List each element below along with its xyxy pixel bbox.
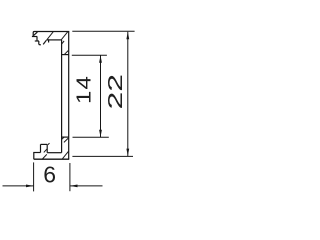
dim 6 right tail	[70, 185, 102, 187]
foot inner top edge	[47, 152, 61, 154]
beak lower vertical	[38, 41, 40, 45]
dim 6 left tail	[3, 185, 34, 187]
hatch web D	[64, 51, 68, 55]
riser left vertical	[40, 144, 42, 152]
hatch web F	[64, 138, 68, 142]
dim 6 left extension line	[33, 162, 35, 191]
arrow 22 bottom	[126, 149, 129, 156]
hatch flange A	[47, 32, 53, 40]
beak underside	[39, 44, 41, 46]
foot bottom edge	[34, 158, 69, 160]
hatch tick J	[48, 143, 50, 145]
dim 22 top extension line	[72, 30, 134, 32]
arrow 14 top	[99, 55, 102, 62]
hatch riser I	[44, 149, 47, 153]
svg-text:14: 14	[72, 75, 95, 104]
web internal line upper	[62, 54, 69, 56]
hatch web C	[62, 41, 64, 44]
arrow 14 bottom	[99, 130, 102, 137]
riser top edge	[41, 143, 48, 145]
svg-text:22: 22	[104, 74, 126, 110]
beak step bar 2	[35, 40, 39, 42]
arrow 22 top	[126, 32, 129, 39]
dim 6 right extension line	[69, 163, 71, 191]
dim 14 line	[100, 56, 102, 138]
beak pocket right vertical	[48, 39, 50, 42]
hatch flange B	[61, 32, 68, 40]
top flange top edge	[33, 32, 69, 37]
arrow 6 right	[70, 185, 78, 188]
riser right vertical	[46, 144, 48, 152]
foot left vertical	[33, 153, 35, 160]
web internal line lower	[62, 136, 69, 138]
hatch base H	[42, 154, 47, 159]
foot top-left horizontal	[33, 152, 40, 154]
web right edge	[68, 32, 70, 160]
web left edge	[61, 40, 63, 153]
dim 14 bottom extension line	[73, 136, 109, 138]
dim 14 top extension line	[72, 54, 107, 56]
hatch web E	[61, 137, 64, 140]
svg-text:6: 6	[43, 162, 56, 188]
beak step bar 1	[32, 36, 37, 38]
hatch base G	[62, 151, 68, 159]
arrow 6 left	[26, 185, 34, 188]
beak stem vertical	[36, 37, 38, 42]
beak pocket hatch diagonal	[43, 40, 46, 44]
beak box hatch diagonal	[34, 32, 38, 35]
flange inner edge	[46, 39, 61, 41]
dim 22 line	[127, 32, 129, 156]
dim 22 bottom extension line	[72, 155, 133, 157]
